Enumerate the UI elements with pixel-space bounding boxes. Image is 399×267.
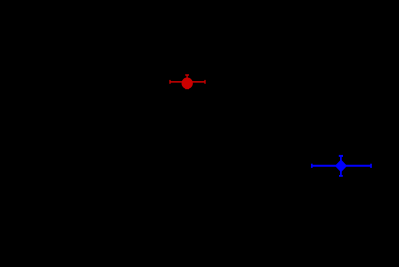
red circle marker: [182, 78, 193, 89]
blue diamond marker: [336, 160, 347, 171]
red data point error bars: [170, 75, 205, 89]
blue data point error bars: [312, 156, 371, 176]
